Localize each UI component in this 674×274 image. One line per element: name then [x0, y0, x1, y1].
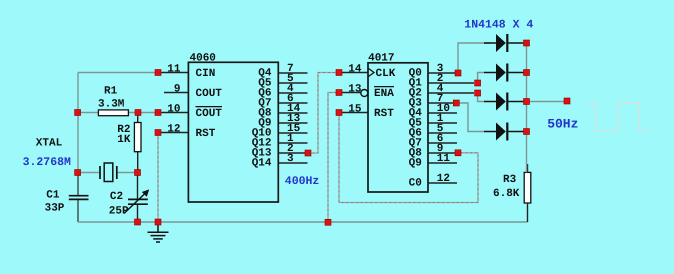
svg-text:10: 10	[167, 104, 180, 116]
wire RST1 to ground dashed	[157, 133, 159, 223]
node R1-R2 junction	[135, 110, 141, 116]
svg-text:C1: C1	[46, 190, 60, 202]
node pin10 junction	[155, 110, 161, 116]
capacitor C2 variable	[124, 189, 149, 213]
wire pin12 stub	[161, 132, 188, 134]
svg-text:400Hz: 400Hz	[285, 175, 320, 188]
wire R3 bottom lead	[527, 203, 529, 222]
svg-text:CIN: CIN	[196, 68, 216, 80]
wire C2 leads	[137, 173, 139, 223]
svg-text:12: 12	[437, 173, 450, 185]
diode network wires	[456, 43, 567, 172]
node XTAL-C2 junction	[135, 170, 141, 176]
diode D2	[484, 64, 524, 82]
svg-text:9: 9	[174, 84, 181, 96]
svg-text:COUT: COUT	[196, 88, 223, 100]
wire pin11 stub	[158, 72, 188, 74]
svg-text:C2: C2	[110, 191, 123, 203]
4017 output pin wires	[428, 73, 474, 183]
wire crystal row	[78, 172, 138, 174]
svg-text:13: 13	[348, 84, 362, 96]
wire Q8 to RST2 feedback dashed	[339, 113, 478, 203]
svg-text:3: 3	[287, 153, 294, 165]
svg-text:3.3M: 3.3M	[98, 99, 125, 111]
IC U1 4060 box	[188, 62, 278, 202]
svg-text:6.8K: 6.8K	[493, 188, 520, 200]
svg-text:15: 15	[348, 104, 362, 116]
IC U2 4017 box	[368, 63, 428, 192]
node pin12 junction	[155, 130, 161, 136]
node rail-XTAL junction	[75, 170, 81, 176]
wire bottom ground rail	[78, 221, 528, 223]
capacitor C1	[69, 196, 89, 200]
svg-text:XTAL: XTAL	[36, 137, 63, 149]
4017 clock arrow	[369, 69, 375, 77]
svg-text:50Hz: 50Hz	[547, 117, 578, 132]
wire rail to C1	[77, 173, 79, 223]
junction squares	[75, 40, 570, 225]
4060 output pin wires	[278, 73, 307, 163]
node D2k junction	[524, 70, 530, 76]
wire R1 row	[78, 112, 158, 114]
4017 pin label ENA-inverted with overline	[374, 87, 394, 100]
svg-text:COUT: COUT	[196, 108, 223, 120]
node out50 junction	[564, 98, 570, 104]
svg-text:CLK: CLK	[376, 68, 396, 80]
resistor R3	[524, 172, 531, 203]
svg-text:ENA: ENA	[374, 88, 394, 100]
svg-text:11: 11	[437, 153, 451, 165]
svg-text:11: 11	[167, 64, 181, 76]
wire Q1 to D2	[478, 73, 484, 84]
crystal XTAL symbol	[100, 163, 117, 182]
node D3k junction	[524, 99, 530, 105]
node Q2 junction	[475, 90, 481, 96]
svg-text:4060: 4060	[190, 52, 216, 64]
ground	[148, 222, 169, 242]
node pin11 junction	[155, 70, 161, 76]
wire Q0 to D1	[458, 43, 490, 73]
svg-text:3.2768M: 3.2768M	[23, 156, 71, 169]
wire pin10 stub	[158, 112, 188, 114]
svg-text:25P: 25P	[109, 205, 129, 217]
wire R3 top lead	[527, 164, 529, 172]
wire 50Hz output	[527, 101, 568, 103]
svg-text:R1: R1	[104, 86, 118, 98]
wire ENA to ground dashed	[328, 93, 336, 223]
node D4k junction	[524, 129, 530, 135]
diode D1	[484, 34, 524, 52]
svg-text:C0: C0	[409, 177, 422, 189]
svg-text:12: 12	[167, 124, 180, 136]
svg-text:RST: RST	[196, 128, 216, 140]
resistor R1	[98, 110, 128, 116]
node CLK junction	[336, 70, 342, 76]
node RST2 junction	[336, 110, 342, 116]
4017 ENA bubble	[361, 90, 368, 97]
wire Q13 to CLK dashed	[308, 73, 336, 154]
node Q3 junction	[453, 100, 459, 106]
node Q0 junction	[455, 70, 461, 76]
node D1k junction	[524, 40, 530, 46]
node ENA junction	[336, 90, 342, 96]
wire cathode bus	[526, 43, 528, 172]
wire top rail CIN net	[78, 73, 158, 173]
diode D3	[484, 93, 524, 111]
svg-text:1N4148 X 4: 1N4148 X 4	[464, 19, 533, 32]
4060 output stubs and labels	[252, 63, 308, 169]
svg-text:14: 14	[348, 64, 362, 76]
wire 4017 left pin stubs	[342, 73, 368, 113]
wire R2 leads	[137, 113, 139, 173]
node Q8 junction	[455, 150, 461, 156]
svg-text:R3: R3	[503, 174, 517, 186]
svg-text:4017: 4017	[368, 52, 394, 64]
svg-text:1K: 1K	[117, 134, 131, 146]
node rail-R1 junction	[75, 110, 81, 116]
wire Q2 to D3	[478, 93, 484, 102]
4017 output stubs and labels	[409, 63, 474, 189]
resistor R2	[134, 123, 141, 152]
4060 pin label COUT-inverted with overline	[196, 107, 223, 120]
svg-text:Q9: Q9	[409, 157, 422, 169]
svg-text:Q14: Q14	[252, 157, 272, 169]
diodes D1-D4	[484, 34, 524, 141]
waveform	[586, 103, 649, 131]
svg-text:RST: RST	[374, 108, 394, 120]
svg-text:33P: 33P	[45, 203, 65, 215]
diode D4	[484, 123, 524, 141]
node Q1 junction	[475, 80, 481, 86]
node ENA-gnd junction	[325, 219, 331, 225]
node gnd junction	[155, 219, 161, 225]
node Q13 junction	[305, 150, 311, 156]
wire Q3 to D4	[456, 103, 484, 132]
wire pin9 stub	[164, 92, 188, 94]
node C2-gnd junction	[135, 219, 141, 225]
